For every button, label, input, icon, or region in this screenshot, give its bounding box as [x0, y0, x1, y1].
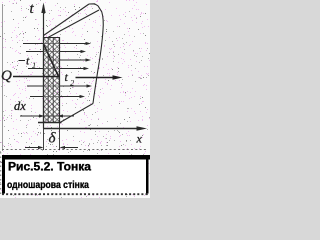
- t axis: [43, 5, 45, 129]
- dotted page-left marquee beside caption box: [0, 152, 2, 197]
- label t2: [65, 70, 76, 88]
- dx dimension arrow left: [20, 114, 45, 117]
- scan noise: dark speckle dots: [0, 0, 150, 195]
- scanned paper background: [0, 0, 150, 198]
- heat flux arrow A4: [28, 67, 89, 70]
- svg-text:δ: δ: [49, 131, 57, 147]
- heat flux arrow A3: [48, 58, 91, 61]
- delta extension line right: [59, 123, 61, 151]
- caption box interior: [4, 157, 147, 194]
- heat flux arrow A2: [26, 50, 86, 53]
- caption box dotted bottom border: [2, 193, 149, 195]
- slab right back edge (wavy): [93, 6, 103, 104]
- dotted frame line above caption: [2, 149, 148, 151]
- x axis: [44, 128, 139, 130]
- slab bottom edge: [60, 104, 93, 123]
- slab top face: lower diagonal: [47, 10, 99, 38]
- wall top edge: [43, 37, 60, 39]
- wall left edge: [43, 37, 45, 123]
- scan noise: pink speckle dots: [0, 0, 150, 198]
- svg-text:Q: Q: [1, 68, 12, 84]
- delta dimension arrow right: [60, 146, 79, 149]
- caption box top border: [2, 155, 150, 160]
- svg-text:одношарова стінка: одношарова стінка: [7, 180, 89, 191]
- faint left scan border: [2, 4, 4, 151]
- svg-text:dx: dx: [14, 99, 26, 113]
- caption box right border: [146, 155, 149, 194]
- scan noise: gray speckle dots: [0, 0, 150, 198]
- wall (hatched section): [44, 38, 60, 123]
- slab top face: upper diagonal: [44, 4, 90, 36]
- label t1 with leading dash: [19, 54, 37, 71]
- svg-text:1: 1: [32, 60, 36, 70]
- delta extension line left: [43, 129, 45, 151]
- svg-text:Рис.5.2. Тонка: Рис.5.2. Тонка: [8, 162, 92, 174]
- dx slice line left: [47, 38, 49, 122]
- heat flux arrow A5: [27, 84, 92, 87]
- dx dimension arrow right: [58, 114, 75, 117]
- svg-text:x: x: [136, 132, 143, 146]
- slab top back edge: [89, 4, 98, 6]
- dx dimension line crossing wall: [44, 115, 60, 117]
- x axis arrowhead: [137, 126, 148, 131]
- heat flux arrow A6: [30, 95, 85, 98]
- wall bottom edge: [38, 122, 62, 124]
- delta dimension arrow left: [25, 146, 44, 149]
- temperature profile line in wall: [44, 45, 59, 78]
- wall right edge: [59, 37, 61, 123]
- dx slice line right: [52, 38, 54, 122]
- heat flux arrow A1: [23, 42, 91, 45]
- caption box left border: [2, 155, 5, 194]
- t axis arrowhead: [41, 3, 45, 14]
- heat flux arrow Q (long): [13, 75, 123, 79]
